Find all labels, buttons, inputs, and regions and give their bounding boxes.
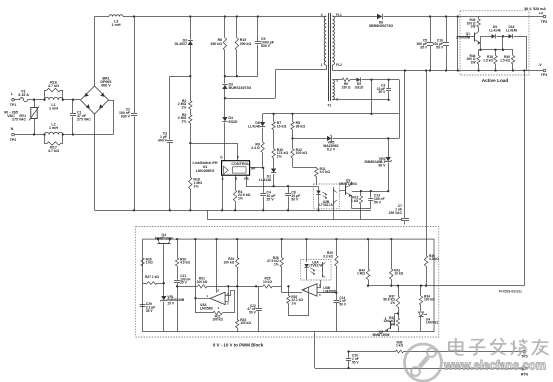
resistor R15 (235, 17, 251, 78)
svg-text:1 mH: 1 mH (49, 107, 58, 111)
resistor R40 (500, 50, 515, 72)
wire (352, 190, 388, 192)
resistor R23 (236, 286, 252, 331)
svg-text:MMBT3904: MMBT3904 (155, 237, 173, 241)
wire PWM inner box (143, 239, 434, 331)
wire primary ground rail (95, 210, 372, 212)
node N input terminal TP2 (10, 127, 17, 142)
fuse F1 (18, 90, 29, 102)
svg-text:390 kΩ: 390 kΩ (211, 42, 223, 46)
svg-text:CONTROL: CONTROL (231, 162, 250, 166)
svg-text:LM358D: LM358D (323, 289, 336, 293)
resistor R16 (45, 80, 63, 99)
wire (14, 99, 19, 101)
svg-text:LL4148: LL4148 (259, 178, 271, 182)
svg-text:LM358D: LM358D (200, 306, 213, 310)
active load box (460, 11, 529, 83)
svg-text:LL4148: LL4148 (489, 29, 500, 33)
svg-text:ZTX690B: ZTX690B (456, 35, 471, 39)
node TP4 (538, 63, 547, 77)
resistor R29 (323, 238, 338, 293)
svg-text:100 kΩ: 100 kΩ (197, 280, 208, 284)
wire (28, 99, 45, 101)
resistor R10 (272, 148, 288, 169)
svg-text:35 V: 35 V (420, 45, 428, 49)
node RTN terminal (521, 366, 529, 377)
svg-text:DL4007: DL4007 (175, 42, 187, 46)
zener VR5 (293, 135, 400, 152)
resistor R30 (424, 254, 439, 286)
wire (457, 17, 459, 71)
wire (399, 114, 401, 138)
capacitor C21 (174, 274, 190, 332)
svg-text:BP: BP (251, 166, 255, 170)
svg-text:LNK406EG: LNK406EG (196, 169, 215, 173)
svg-text:T1: T1 (327, 104, 331, 108)
watermark logo (405, 344, 442, 381)
svg-text:100 kΩ: 100 kΩ (212, 318, 223, 322)
resistor R9 (251, 142, 264, 168)
svg-text:FL2: FL2 (336, 63, 342, 67)
capacitor C1 (70, 100, 91, 135)
resistor R41 (390, 238, 404, 287)
svg-text:3.0 kΩ: 3.0 kΩ (320, 170, 331, 174)
svg-text:50 V: 50 V (379, 90, 387, 94)
resistor R44 (357, 238, 370, 287)
wire S pin (221, 175, 223, 211)
svg-text:275 VAC: 275 VAC (12, 118, 26, 122)
resistor R5 (291, 114, 306, 140)
svg-text:1%: 1% (238, 197, 243, 201)
svg-text:MMBT3904: MMBT3904 (339, 182, 357, 186)
svg-text:100 kΩ: 100 kΩ (296, 151, 308, 155)
svg-text:Active Load: Active Load (482, 78, 509, 83)
svg-text:100 kΩ: 100 kΩ (240, 321, 251, 325)
wire (94, 114, 96, 210)
svg-text:1 MΩ: 1 MΩ (357, 272, 365, 276)
wire (479, 49, 513, 51)
wire (503, 36, 527, 70)
svg-text:4: 4 (321, 13, 323, 17)
svg-text:LTV817A: LTV817A (319, 203, 333, 207)
svg-text:630 V: 630 V (121, 115, 131, 119)
resistor R18 (189, 143, 203, 211)
resistor R13 (351, 191, 363, 209)
svg-text:LMV431: LMV431 (426, 321, 438, 325)
capacitor C22 (247, 286, 261, 331)
svg-text:3.15 A: 3.15 A (18, 93, 29, 97)
wire stepped rail (207, 210, 402, 219)
diode D9 (486, 25, 501, 38)
diode D8 (248, 114, 265, 142)
wire clamp (225, 76, 258, 78)
capacitor C8 (285, 186, 300, 211)
resistor R28 (267, 238, 283, 293)
svg-text:3.3 kΩ: 3.3 kΩ (323, 255, 333, 259)
svg-text:0 V - 10 V to PWM Block: 0 V - 10 V to PWM Block (213, 343, 264, 348)
wire V pin (190, 143, 237, 161)
wire dim line (349, 351, 396, 353)
transistor Q1 (456, 32, 486, 50)
label PI-6529-091311 (499, 290, 522, 294)
wire feedback (368, 285, 434, 287)
diode D4 (222, 98, 238, 161)
wire (63, 99, 81, 101)
resistor R8 (211, 17, 227, 78)
capacitor C4 (260, 168, 275, 212)
wire (352, 209, 371, 220)
wire (434, 71, 525, 286)
svg-text:MMBT3906: MMBT3906 (373, 333, 390, 337)
wire (109, 100, 114, 135)
wire (426, 71, 428, 256)
resistor R7 (272, 114, 287, 149)
wire top rail right (384, 15, 544, 17)
svg-text:1%: 1% (274, 263, 279, 267)
capacitor C14 (333, 293, 347, 332)
diode D10 (497, 25, 527, 38)
svg-text:25 V: 25 V (267, 197, 275, 201)
resistor R32 (287, 285, 309, 315)
svg-text:+V: +V (539, 12, 544, 16)
resistor R11 (315, 167, 331, 185)
transistor Q3 (339, 179, 357, 209)
capacitor C10 (432, 17, 449, 72)
diode D1 (259, 169, 276, 187)
diode D2 (175, 17, 193, 78)
wire bias rail (263, 113, 400, 115)
diode D5 (350, 78, 399, 90)
wire top rail (123, 15, 326, 17)
capacitor C11 (377, 80, 391, 101)
svg-text:1%: 1% (194, 184, 199, 188)
wire (14, 133, 44, 135)
svg-text:1.5 kΩ: 1.5 kΩ (500, 59, 510, 63)
svg-text:www.elecfans.com: www.elecfans.com (443, 358, 546, 372)
resistor R3 (178, 109, 192, 144)
svg-text:150 Ω: 150 Ω (342, 85, 351, 89)
svg-text:1 mH: 1 mH (49, 126, 58, 130)
svg-text:TP1: TP1 (10, 103, 17, 107)
resistor R43 (467, 17, 481, 32)
resistor R34 (419, 286, 435, 311)
capacitor C29 (140, 302, 156, 313)
transistor Q2 (373, 314, 398, 338)
svg-text:36 V, 528 mA: 36 V, 528 mA (524, 7, 546, 11)
wire mid rail (178, 285, 258, 287)
resistor R25 (256, 277, 282, 288)
svg-text:PI-6529-091311: PI-6529-091311 (499, 290, 522, 294)
svg-text:LL4148: LL4148 (248, 125, 260, 129)
wire (215, 238, 217, 293)
svg-text:2.4 Ω: 2.4 Ω (251, 146, 260, 150)
svg-text:4.3 kΩ: 4.3 kΩ (429, 257, 439, 261)
svg-text:1%: 1% (181, 120, 186, 124)
svg-text:100 kΩ: 100 kΩ (424, 298, 435, 302)
resistor R2 (178, 76, 192, 109)
svg-text:390 kΩ: 390 kΩ (240, 42, 252, 46)
inductor L3 (109, 15, 123, 27)
svg-text:10 kΩ: 10 kΩ (394, 272, 403, 276)
svg-text:15 V: 15 V (167, 301, 175, 305)
op-amp U3B (282, 280, 338, 297)
svg-text:1%: 1% (390, 301, 395, 305)
capacitor C3 (158, 132, 173, 212)
optocoupler U2B (314, 184, 340, 219)
resistor R44 active load (467, 50, 481, 72)
svg-text:1 kΩ: 1 kΩ (146, 261, 154, 265)
resistor R6 (336, 78, 351, 89)
resistor R18 active load (483, 50, 497, 72)
inductor L2 (43, 123, 64, 136)
capacitor C5 (416, 17, 433, 72)
resistor R22 (195, 311, 234, 322)
svg-text:R27 1 kΩ: R27 1 kΩ (145, 275, 159, 279)
resistor R21 (177, 277, 212, 288)
diode D3 (222, 76, 251, 99)
node TP3 (524, 7, 547, 24)
svg-text:100 kΩ: 100 kΩ (223, 261, 234, 265)
diode D6 (369, 14, 394, 28)
svg-text:1%: 1% (181, 106, 186, 110)
svg-text:TP4: TP4 (541, 73, 548, 77)
wire (170, 76, 191, 139)
svg-text:600 V: 600 V (101, 84, 111, 88)
svg-text:TP3: TP3 (541, 20, 548, 24)
svg-text:50 V: 50 V (249, 311, 257, 315)
capacitor C20 (346, 350, 360, 368)
resistor R24 (223, 238, 238, 286)
svg-text:1 kΩ: 1 kΩ (351, 199, 359, 203)
resistor R26 (141, 257, 153, 266)
op-amp U3A (195, 285, 234, 313)
node TP5 (521, 350, 527, 358)
svg-text:1%: 1% (277, 155, 282, 159)
capacitor C7 (389, 71, 409, 225)
svg-text:36 kΩ: 36 kΩ (296, 125, 306, 129)
svg-text:50 V: 50 V (339, 302, 347, 306)
svg-text:TP2: TP2 (10, 138, 17, 142)
label 90-265 VAC (4, 111, 18, 119)
svg-text:3: 3 (336, 79, 338, 83)
svg-text:6.2 V: 6.2 V (327, 147, 336, 151)
op-amp U1 LNK406EG (192, 156, 255, 181)
PWM block dashed box (136, 227, 439, 348)
svg-text:400 V: 400 V (158, 139, 168, 143)
zener VR2 (364, 138, 392, 192)
wire (333, 16, 377, 18)
node L input terminal TP1 (10, 92, 17, 107)
svg-text:RTN: RTN (521, 373, 529, 377)
svg-text:50 V: 50 V (352, 360, 360, 364)
watermark url (443, 358, 546, 372)
svg-text:MURS160T3G: MURS160T3G (229, 86, 252, 90)
resistor R4 (233, 175, 250, 211)
svg-text:25 V: 25 V (180, 281, 188, 285)
resistor R27 (143, 275, 164, 285)
wire RTN line (315, 332, 523, 370)
wire RTN rail (332, 69, 543, 71)
svg-text:16 kΩ: 16 kΩ (277, 125, 287, 129)
svg-text:1 mH: 1 mH (111, 23, 120, 27)
svg-text:275 VAC: 275 VAC (77, 117, 91, 121)
varistor RV1 (12, 100, 39, 135)
capacitor C2 (119, 17, 137, 212)
svg-text:US1D: US1D (355, 85, 364, 89)
resistor R33 (383, 314, 399, 332)
capacitor C13 (368, 191, 384, 209)
resistor R20 (175, 238, 190, 280)
wire (94, 17, 96, 87)
wire FB pin (246, 175, 314, 187)
transistor Q4 (155, 233, 173, 249)
svg-text:1.5 kΩ: 1.5 kΩ (483, 59, 493, 63)
optocoupler U2A (301, 238, 332, 280)
resistor R36 (396, 340, 523, 353)
svg-text:630 V: 630 V (261, 44, 271, 48)
svg-text:250 VAC: 250 VAC (389, 211, 403, 215)
svg-text:50 V: 50 V (146, 309, 154, 313)
svg-text:4.7 kΩ: 4.7 kΩ (48, 149, 59, 153)
inductor L1 (43, 97, 64, 110)
watermark text (449, 338, 549, 356)
shunt regulator U4 (419, 312, 439, 332)
bridge rectifier BR1 (81, 76, 113, 114)
zener VR1 (160, 283, 185, 331)
wire bias return (332, 80, 399, 115)
capacitor C9 (255, 17, 274, 77)
svg-text:N: N (11, 127, 14, 131)
svg-text:ES2D: ES2D (229, 120, 239, 124)
svg-text:4.7 kΩ: 4.7 kΩ (48, 84, 59, 88)
svg-text:-V: -V (538, 63, 542, 67)
svg-text:LTV817A: LTV817A (309, 264, 323, 268)
wire drain node (225, 70, 326, 99)
svg-text:LL4148: LL4148 (506, 29, 517, 33)
svg-text:4.3 kΩ: 4.3 kΩ (180, 261, 190, 265)
wire BP pin (250, 167, 265, 169)
wire (63, 133, 114, 135)
transformer T1 (321, 13, 342, 108)
svg-text:36 V: 36 V (378, 164, 386, 168)
wire Q4 base (163, 249, 165, 285)
wire top rail (95, 16, 110, 18)
svg-text:SBR8H200T3G: SBR8H200T3G (369, 24, 394, 28)
wire (194, 238, 196, 313)
svg-text:10 kΩ: 10 kΩ (263, 280, 272, 284)
svg-text:50 V: 50 V (436, 45, 444, 49)
svg-text:50 V: 50 V (291, 197, 299, 201)
resistor R37 (383, 286, 399, 315)
resistor R17 (45, 135, 63, 153)
resistor R12 (291, 138, 317, 167)
svg-text:50 V: 50 V (374, 201, 382, 205)
svg-text:1: 1 (321, 63, 323, 67)
svg-text:1%: 1% (291, 301, 296, 305)
svg-text:1 kΩ: 1 kΩ (396, 344, 404, 348)
